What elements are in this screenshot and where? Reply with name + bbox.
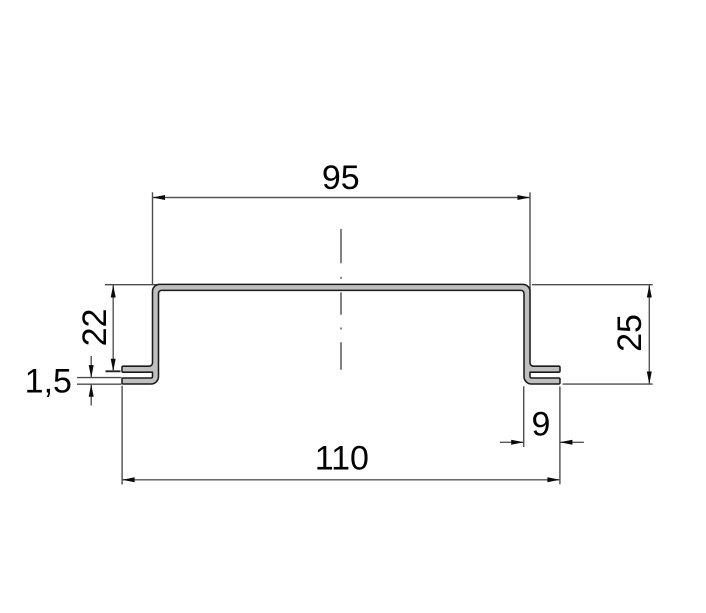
centerline (vertical dash-dot) bbox=[340, 229, 342, 370]
dim 110: left extension line bbox=[121, 386, 123, 485]
dim 110: right arrowhead bbox=[547, 477, 560, 482]
dim 95: dimension line bbox=[153, 197, 531, 199]
dim 110: left arrowhead bbox=[122, 477, 135, 482]
dim 95: left extension line bbox=[152, 192, 154, 285]
dim 9: right arrow tail bbox=[560, 441, 584, 443]
svg-text:9: 9 bbox=[531, 406, 550, 444]
dim 22: top extension line bbox=[105, 284, 160, 286]
dim 22: top arrowhead bbox=[111, 285, 116, 298]
dim 22: bottom tick bbox=[106, 370, 121, 372]
svg-text:110: 110 bbox=[315, 440, 369, 478]
dim 1,5: upper arrowhead (down) bbox=[89, 365, 94, 378]
dim 1,5: upper extension line bbox=[77, 377, 122, 379]
dim 95: left arrowhead bbox=[153, 195, 166, 200]
dim 9: left arrowhead (points right) bbox=[511, 440, 524, 445]
dim 9: left arrow tail bbox=[500, 441, 524, 443]
dim 95: right arrowhead bbox=[518, 195, 531, 200]
svg-text:25: 25 bbox=[611, 314, 649, 352]
dim 25: top extension line bbox=[532, 284, 653, 286]
dim 1,5: upper arrow tail bbox=[90, 356, 92, 378]
svg-text:1,5: 1,5 bbox=[25, 363, 72, 401]
dim 1,5: lower arrowhead (up) bbox=[89, 384, 94, 397]
dim 1,5: lower extension line bbox=[77, 383, 122, 385]
dim 25: bottom extension line bbox=[563, 383, 653, 385]
dim 25: top arrowhead bbox=[647, 285, 652, 298]
dim 9: right arrowhead (points left) bbox=[560, 440, 573, 445]
dim 22: bottom arrowhead bbox=[111, 359, 116, 372]
dim 25: bottom arrowhead bbox=[647, 372, 652, 385]
dim 25: dimension line bbox=[648, 285, 650, 384]
dim 9: right extension line bbox=[559, 387, 561, 485]
dim 1,5: lower arrow tail bbox=[90, 384, 92, 405]
dim 95: right extension line bbox=[529, 192, 531, 290]
hat profile (gray sheet-metal cross-section) bbox=[122, 284, 560, 384]
svg-text:22: 22 bbox=[76, 309, 114, 347]
dim 110: dimension line bbox=[122, 479, 560, 481]
dim 22: dimension line bbox=[112, 285, 114, 371]
dim 9: left extension line bbox=[523, 386, 525, 447]
svg-text:95: 95 bbox=[322, 159, 360, 197]
